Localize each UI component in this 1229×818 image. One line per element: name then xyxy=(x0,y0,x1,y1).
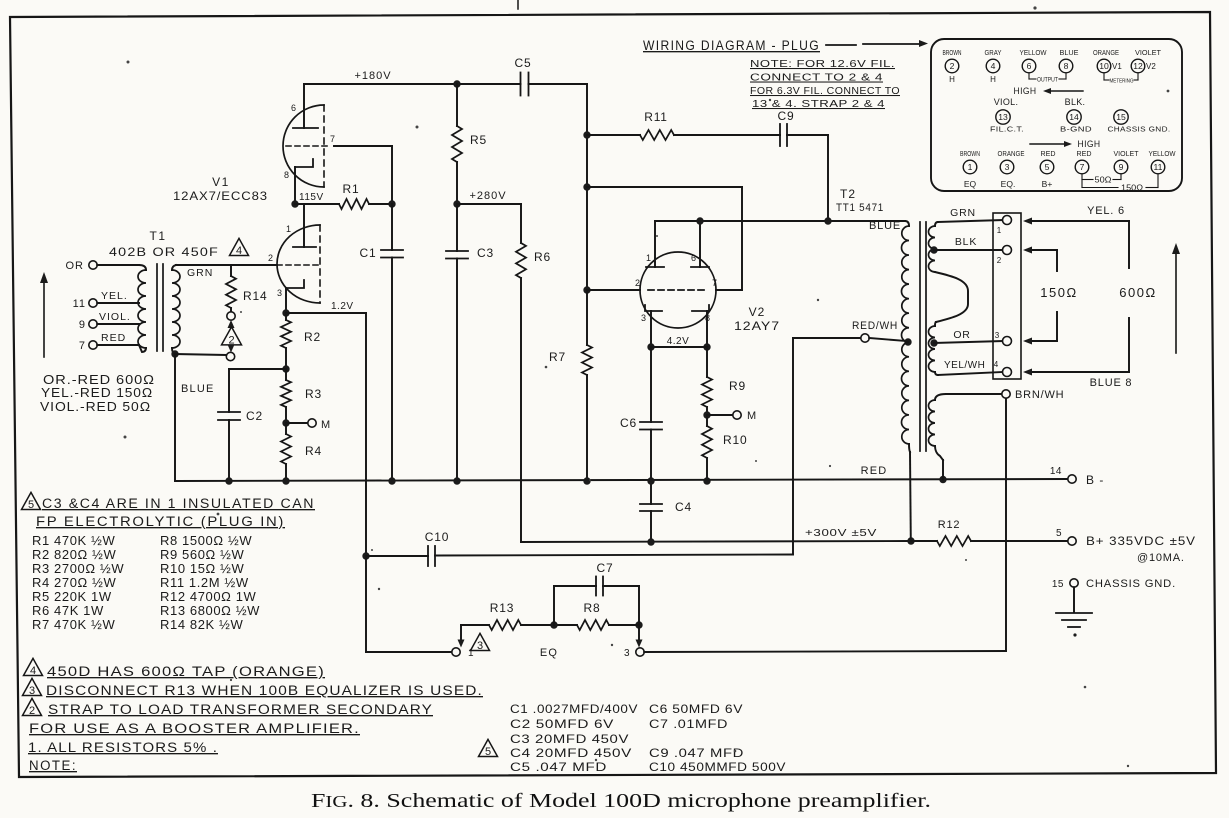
svg-text:VIOLET: VIOLET xyxy=(1135,50,1162,57)
resistor R10 xyxy=(706,415,708,426)
node M tap xyxy=(282,419,289,426)
wire YEL/WH xyxy=(938,372,1003,375)
svg-text:OR.-RED 600Ω: OR.-RED 600Ω xyxy=(43,373,155,387)
svg-text:ORANGE: ORANGE xyxy=(998,151,1025,158)
svg-text:2: 2 xyxy=(29,705,35,717)
svg-text:C5: C5 xyxy=(515,56,532,70)
svg-text:C3 &C4 ARE IN 1 INSULATED CAN: C3 &C4 ARE IN 1 INSULATED CAN xyxy=(42,496,315,511)
svg-text:R13 6800Ω ½W: R13 6800Ω ½W xyxy=(160,603,260,618)
node +280V xyxy=(453,200,460,207)
svg-text:NOTE: FOR 12.6V FIL.: NOTE: FOR 12.6V FIL. xyxy=(750,58,895,70)
capacitor C1 xyxy=(391,204,393,250)
svg-text:BROWN: BROWN xyxy=(960,151,980,158)
resistor R7 xyxy=(586,290,588,345)
wire YEL 6 arrow xyxy=(1023,218,1032,225)
svg-text:1.2V: 1.2V xyxy=(331,301,354,312)
svg-text:R6: R6 xyxy=(534,250,551,264)
wire R13 to R8 xyxy=(521,624,577,626)
svg-text:C7: C7 xyxy=(597,561,614,575)
transformer T1 secondary winding xyxy=(172,265,176,270)
node C10 left xyxy=(362,552,369,559)
svg-text:4: 4 xyxy=(236,245,242,257)
svg-text:FIG. 8. Schematic of Model: FIG. 8. Schematic of Model 100D micropho… xyxy=(311,790,931,812)
svg-text:+180V: +180V xyxy=(354,70,391,82)
svg-text:C1 .0027MFD/400V: C1 .0027MFD/400V xyxy=(510,702,638,716)
wire RED/WH to T2 tap xyxy=(869,338,906,341)
note marker 3 (EQ) xyxy=(471,633,490,650)
svg-text:C5 .047 MFD: C5 .047 MFD xyxy=(510,760,607,774)
wire to V2 grid pin2 xyxy=(587,289,640,291)
ground symbol xyxy=(1073,587,1075,612)
svg-text:115V: 115V xyxy=(299,192,324,203)
svg-text:R2: R2 xyxy=(304,330,321,344)
svg-text:R3: R3 xyxy=(305,387,322,401)
terminal EQ 3 xyxy=(636,648,644,656)
svg-text:H: H xyxy=(949,75,955,84)
svg-text:GRAY: GRAY xyxy=(985,50,1002,57)
svg-text:12: 12 xyxy=(1133,61,1143,71)
capacitor C10 xyxy=(366,555,428,557)
svg-text:1. ALL RESISTORS 5% .: 1. ALL RESISTORS 5% . xyxy=(28,740,218,755)
wire 115V node xyxy=(295,203,339,205)
svg-text:3: 3 xyxy=(477,640,483,652)
wire +280V to R6 xyxy=(457,203,521,205)
svg-text:RED: RED xyxy=(1077,151,1092,158)
tube V1b cathode pin 3 xyxy=(286,280,304,288)
transformer T2 core xyxy=(919,222,921,451)
wire +180V rail xyxy=(304,83,521,85)
svg-text:6: 6 xyxy=(691,253,696,263)
svg-text:15: 15 xyxy=(1116,112,1126,122)
svg-text:CHASSIS GND.: CHASSIS GND. xyxy=(1108,125,1171,134)
svg-text:10: 10 xyxy=(1099,61,1109,71)
svg-text:R5: R5 xyxy=(470,133,487,147)
svg-text:T1: T1 xyxy=(149,229,166,243)
terminal RED/WH xyxy=(861,334,869,342)
tube V1b plate pin 1 xyxy=(293,246,316,248)
plug METERING bracket xyxy=(1103,73,1105,80)
capacitor C2 xyxy=(229,368,286,370)
svg-text:6: 6 xyxy=(1027,61,1032,71)
svg-text:R8 1500Ω ½W: R8 1500Ω ½W xyxy=(160,533,252,548)
output up arrow xyxy=(1175,253,1177,353)
note marker 2 text xyxy=(23,698,42,715)
svg-text:3: 3 xyxy=(995,331,1000,340)
svg-text:8: 8 xyxy=(1064,61,1069,71)
svg-text:YELLOW: YELLOW xyxy=(1149,151,1176,158)
node R9/R10 xyxy=(703,411,710,418)
terminal EQ 1 xyxy=(452,648,460,656)
svg-text:YEL. 6: YEL. 6 xyxy=(1087,205,1125,217)
svg-text:R9 560Ω ½W: R9 560Ω ½W xyxy=(160,547,244,562)
svg-text:600Ω: 600Ω xyxy=(1119,285,1156,300)
svg-text:5: 5 xyxy=(28,499,34,511)
svg-text:RED: RED xyxy=(1041,151,1056,158)
wire RED/WH xyxy=(793,337,861,339)
svg-text:CHASSIS GND.: CHASSIS GND. xyxy=(1086,578,1176,590)
svg-text:8: 8 xyxy=(705,313,710,323)
svg-text:V2: V2 xyxy=(749,305,766,319)
svg-text:R11: R11 xyxy=(644,110,668,124)
svg-text:R11 1.2M ½W: R11 1.2M ½W xyxy=(160,575,249,590)
wire C9 to T2 blue xyxy=(827,135,829,221)
resistor R14 xyxy=(230,265,232,276)
svg-text:C4 20MFD 450V: C4 20MFD 450V xyxy=(510,746,632,760)
strip terminal 2 xyxy=(1003,246,1012,255)
node 1.2V xyxy=(282,309,289,316)
svg-text:R8: R8 xyxy=(584,601,601,615)
svg-text:EQ: EQ xyxy=(540,647,558,659)
svg-text:BLUE 8: BLUE 8 xyxy=(1090,377,1133,389)
svg-text:450D HAS 600Ω TAP (ORANGE): 450D HAS 600Ω TAP (ORANGE) xyxy=(47,664,325,679)
terminal 7 RED xyxy=(89,341,97,349)
svg-text:CONNECT TO 2 & 4: CONNECT TO 2 & 4 xyxy=(750,72,883,84)
resistor R4 xyxy=(285,423,287,434)
transformer T1 primary winding xyxy=(139,265,146,270)
svg-text:12AX7/ECC83: 12AX7/ECC83 xyxy=(173,189,268,203)
resistor R11 xyxy=(587,134,640,136)
svg-text:BLK.: BLK. xyxy=(1065,97,1086,107)
svg-text:2: 2 xyxy=(997,256,1002,265)
svg-text:FP ELECTROLYTIC (PLUG IN): FP ELECTROLYTIC (PLUG IN) xyxy=(36,514,285,529)
svg-text:C7 .01MFD: C7 .01MFD xyxy=(649,717,728,731)
tube V2 plate pin 1 xyxy=(646,266,664,268)
svg-text:C3: C3 xyxy=(477,246,494,260)
strap terminal lower xyxy=(226,352,234,360)
tube V2 cathode pin 3 xyxy=(645,305,662,311)
resistor R2 xyxy=(285,313,287,320)
svg-text:6: 6 xyxy=(291,103,296,113)
tube V1a grid pin 7 xyxy=(286,145,327,147)
T2 terminal strip xyxy=(993,213,1021,379)
tube V2 cathode pin 8 xyxy=(692,305,709,311)
svg-text:R1 470K ½W: R1 470K ½W xyxy=(32,533,115,548)
svg-text:ORANGE: ORANGE xyxy=(1093,50,1119,57)
terminal OR xyxy=(89,261,97,269)
wire R13 left with arrow xyxy=(460,625,462,641)
svg-text:TT1 5471: TT1 5471 xyxy=(836,202,884,214)
terminal M (V1) xyxy=(308,419,316,427)
svg-text:HIGH: HIGH xyxy=(1014,86,1037,96)
node R2/R3 xyxy=(282,365,289,372)
svg-text:C3 20MFD 450V: C3 20MFD 450V xyxy=(510,732,629,746)
svg-text:11: 11 xyxy=(73,298,86,310)
capacitor C5 xyxy=(520,73,522,96)
strip terminal 3 xyxy=(1003,337,1012,346)
node grid feed xyxy=(583,183,590,190)
svg-text:M: M xyxy=(747,410,757,422)
svg-text:METERING: METERING xyxy=(1110,79,1134,85)
capacitor C6 xyxy=(650,347,652,422)
plug 50 ohm bracket xyxy=(1081,174,1083,180)
title arrow xyxy=(826,44,856,46)
svg-text:4.2V: 4.2V xyxy=(667,336,690,347)
svg-text:8: 8 xyxy=(284,170,289,180)
wire EQ3 arrow xyxy=(638,625,640,641)
plug OUTPUT bracket xyxy=(1028,73,1030,79)
wire cathode line to EQ1 xyxy=(365,556,367,652)
transformer T1 core xyxy=(156,264,158,351)
node 4.2V xyxy=(647,343,654,350)
svg-text:OUTPUT: OUTPUT xyxy=(1037,78,1058,84)
svg-text:YEL.-RED 150Ω: YEL.-RED 150Ω xyxy=(41,386,153,400)
svg-text:50Ω: 50Ω xyxy=(1095,176,1112,185)
svg-text:BLK: BLK xyxy=(955,236,977,248)
svg-text:13 & 4. STRAP 2 & 4: 13 & 4. STRAP 2 & 4 xyxy=(752,98,885,110)
svg-text:7: 7 xyxy=(712,278,717,288)
paper speckles xyxy=(416,126,419,129)
wire T1 secondary bottom xyxy=(171,350,178,357)
svg-text:HIGH: HIGH xyxy=(1078,139,1101,149)
wire B+ feed vertical xyxy=(586,84,588,290)
svg-text:H: H xyxy=(990,75,996,84)
svg-text:R14: R14 xyxy=(243,289,267,303)
resistor R1 xyxy=(339,199,369,209)
wire V2 plates to T2 BLUE xyxy=(655,220,905,222)
svg-text:@10MA.: @10MA. xyxy=(1137,552,1185,564)
svg-text:13: 13 xyxy=(998,112,1008,122)
svg-text:YEL.: YEL. xyxy=(101,290,128,302)
svg-text:1: 1 xyxy=(997,226,1002,235)
svg-text:12AY7: 12AY7 xyxy=(734,319,780,333)
svg-text:C1: C1 xyxy=(360,246,377,260)
svg-text:DISCONNECT R13 WHEN 100B EQUAL: DISCONNECT R13 WHEN 100B EQUALIZER IS US… xyxy=(46,683,483,698)
capacitor C3 xyxy=(456,204,458,251)
svg-text:VIOL.: VIOL. xyxy=(994,97,1019,107)
terminal 5 B+ xyxy=(1068,537,1076,545)
svg-text:7: 7 xyxy=(1080,162,1085,172)
svg-text:R4 270Ω ½W: R4 270Ω ½W xyxy=(32,575,116,590)
capacitor C9 xyxy=(674,134,780,136)
tube V1a envelope (upper half) xyxy=(283,105,324,187)
svg-text:C4: C4 xyxy=(675,500,692,514)
transformer T2 secondary upper xyxy=(935,222,938,226)
node R8 right xyxy=(635,621,642,628)
wire R6 to +300V line xyxy=(520,278,522,542)
plug HIGH right arrow xyxy=(1030,143,1064,145)
svg-text:C2 50MFD 6V: C2 50MFD 6V xyxy=(510,717,614,731)
resistor R5 xyxy=(456,84,458,126)
svg-text:C9: C9 xyxy=(778,109,795,123)
node R11 tap xyxy=(583,131,590,138)
strip terminal 1 xyxy=(1003,216,1012,225)
svg-text:OR: OR xyxy=(953,329,970,341)
transformer T2 secondary lower xyxy=(935,322,936,326)
wire 150 ohm lower arrow xyxy=(1056,312,1058,341)
tube V2 envelope xyxy=(640,252,716,328)
wire to V2 grid pin7 xyxy=(587,186,742,188)
svg-text:R3 2700Ω ½W: R3 2700Ω ½W xyxy=(32,561,124,576)
terminal BRN/WH xyxy=(946,393,1002,395)
svg-text:VIOLET: VIOLET xyxy=(1114,151,1140,158)
resistor R6 xyxy=(516,243,526,278)
svg-text:15: 15 xyxy=(1052,579,1064,590)
svg-text:1: 1 xyxy=(646,253,651,263)
svg-text:9: 9 xyxy=(1119,162,1124,172)
svg-text:R6 47K 1W: R6 47K 1W xyxy=(32,603,104,618)
resistor R3 xyxy=(281,380,291,407)
svg-text:M: M xyxy=(321,419,331,431)
svg-text:V1: V1 xyxy=(212,175,230,189)
svg-text:B+ 335VDC ±5V: B+ 335VDC ±5V xyxy=(1086,536,1196,548)
svg-text:EQ.: EQ. xyxy=(1001,179,1016,189)
svg-text:RED: RED xyxy=(861,465,888,477)
svg-text:14: 14 xyxy=(1069,112,1079,122)
wire OR tap xyxy=(930,339,937,346)
svg-text:3: 3 xyxy=(641,313,646,323)
resistor R13 xyxy=(461,624,489,626)
svg-text:+300V ±5V: +300V ±5V xyxy=(805,528,877,539)
tube V1b envelope (lower half) xyxy=(277,225,320,303)
resistor R12 xyxy=(911,540,937,542)
svg-text:9: 9 xyxy=(79,319,86,331)
svg-text:4: 4 xyxy=(994,360,999,369)
svg-text:B+: B+ xyxy=(1042,179,1053,189)
node V2 grid pin2 feed xyxy=(583,286,590,293)
svg-text:R10 15Ω ½W: R10 15Ω ½W xyxy=(160,561,244,576)
tube V1a plate pin 6 xyxy=(293,127,318,129)
svg-text:R13: R13 xyxy=(490,601,514,615)
node C4 bottom xyxy=(647,538,654,545)
svg-text:VIOL.: VIOL. xyxy=(99,311,131,323)
svg-text:BROWN: BROWN xyxy=(943,50,962,57)
svg-text:EQ: EQ xyxy=(964,179,977,189)
svg-text:2: 2 xyxy=(268,253,273,263)
svg-text:YEL/WH: YEL/WH xyxy=(944,360,985,371)
wire V1a grid to R1 node xyxy=(334,145,392,147)
wire 1.2V to feedback line xyxy=(286,312,366,314)
tube V2 grid dashes xyxy=(648,289,708,291)
svg-text:14: 14 xyxy=(1050,466,1062,477)
svg-text:4: 4 xyxy=(991,61,996,71)
svg-text:BLUE: BLUE xyxy=(181,383,215,395)
svg-text:T2: T2 xyxy=(840,187,856,201)
svg-text:R14 82K ½W: R14 82K ½W xyxy=(160,617,243,632)
input up arrow xyxy=(43,281,45,357)
svg-text:C6: C6 xyxy=(620,416,637,430)
svg-text:VIOL.-RED 50Ω: VIOL.-RED 50Ω xyxy=(40,400,151,414)
svg-text:R2 820Ω ½W: R2 820Ω ½W xyxy=(32,547,116,562)
svg-text:3: 3 xyxy=(1005,162,1010,172)
tube V1b grid pin 2 xyxy=(277,264,320,266)
svg-text:YELLOW: YELLOW xyxy=(1020,50,1047,57)
top tick mark xyxy=(517,0,519,9)
plug box xyxy=(931,39,1182,191)
svg-text:R12: R12 xyxy=(938,519,961,531)
svg-text:150Ω: 150Ω xyxy=(1040,285,1077,300)
svg-text:1: 1 xyxy=(286,224,291,234)
wire EQ3 to BRN/WH xyxy=(644,651,1006,652)
svg-text:+280V: +280V xyxy=(469,190,506,202)
svg-text:1: 1 xyxy=(968,162,973,172)
note marker 4 text xyxy=(24,658,43,675)
svg-text:BRN/WH: BRN/WH xyxy=(1015,389,1064,401)
svg-text:FOR USE AS A BOOSTER AMPLIFIER: FOR USE AS A BOOSTER AMPLIFIER. xyxy=(29,721,360,736)
node 115V xyxy=(291,200,298,207)
svg-text:RED: RED xyxy=(101,332,126,344)
svg-text:R4: R4 xyxy=(305,444,322,458)
tube V2 plate pin 6 xyxy=(691,266,709,268)
resistor R8 xyxy=(577,620,609,630)
svg-text:C2: C2 xyxy=(246,409,263,423)
wire BLUE (T1 bottom to ground rail) xyxy=(174,354,176,481)
capacitor C7 branch xyxy=(553,586,555,625)
svg-text:RED/WH: RED/WH xyxy=(852,320,898,332)
svg-text:B -: B - xyxy=(1086,473,1104,487)
strip terminal 4 xyxy=(1003,368,1012,377)
terminal 14 B- xyxy=(1068,475,1076,483)
note marker 2 strap (triangle with arrows) xyxy=(228,320,235,328)
node B+ feed xyxy=(907,537,914,544)
svg-text:FIL.C.T.: FIL.C.T. xyxy=(990,125,1024,134)
svg-text:C10 450MMFD 500V: C10 450MMFD 500V xyxy=(649,760,786,774)
note marker 5 (cap list) xyxy=(479,739,498,756)
svg-text:WIRING DIAGRAM - PLUG: WIRING DIAGRAM - PLUG xyxy=(643,38,820,53)
svg-text:2: 2 xyxy=(635,278,640,288)
svg-text:5: 5 xyxy=(1045,162,1050,172)
wire R12 to B+ xyxy=(971,540,1068,542)
svg-text:STRAP TO LOAD TRANSFORMER SECO: STRAP TO LOAD TRANSFORMER SECONDARY xyxy=(48,702,433,717)
svg-text:BLUE: BLUE xyxy=(869,220,901,232)
svg-text:C9 .047 MFD: C9 .047 MFD xyxy=(649,746,744,760)
ground rail junctions xyxy=(225,477,232,484)
terminal M (V2) xyxy=(733,411,741,419)
svg-text:R12 4700Ω 1W: R12 4700Ω 1W xyxy=(160,589,257,604)
svg-text:R1: R1 xyxy=(343,182,360,196)
svg-text:NOTE:: NOTE: xyxy=(29,758,77,773)
transformer T2 primary winding xyxy=(905,221,909,226)
svg-text:GRN: GRN xyxy=(187,267,213,279)
svg-text:C10: C10 xyxy=(425,530,449,544)
T2 secondary link xyxy=(935,272,968,322)
transformer T2 tertiary winding xyxy=(935,394,946,400)
svg-text:7: 7 xyxy=(330,134,335,144)
svg-text:B-GND: B-GND xyxy=(1060,125,1092,134)
svg-text:7: 7 xyxy=(79,340,86,352)
wire 150 ohm upper arrow xyxy=(1023,247,1032,254)
svg-text:4: 4 xyxy=(30,665,36,677)
terminal 9 VIOL xyxy=(89,320,97,328)
svg-text:R7: R7 xyxy=(549,350,566,364)
svg-text:5: 5 xyxy=(1056,528,1062,539)
svg-text:3: 3 xyxy=(277,288,282,298)
wire feedback riser xyxy=(792,338,794,555)
svg-text:402B OR 450F: 402B OR 450F xyxy=(109,245,219,259)
svg-text:R10: R10 xyxy=(723,433,747,447)
capacitor C4 xyxy=(650,481,652,504)
svg-text:V2: V2 xyxy=(1146,62,1156,71)
plug 150 ohm bracket xyxy=(1081,180,1083,188)
svg-text:R9: R9 xyxy=(729,379,746,393)
svg-text:FOR 6.3V FIL. CONNECT TO: FOR 6.3V FIL. CONNECT TO xyxy=(750,85,900,97)
node R1 right xyxy=(388,200,395,207)
svg-text:5: 5 xyxy=(485,746,491,758)
svg-text:BLUE: BLUE xyxy=(1060,50,1079,57)
strap terminal upper xyxy=(227,312,235,320)
svg-text:11: 11 xyxy=(1154,162,1163,172)
svg-text:R7 470K ½W: R7 470K ½W xyxy=(32,617,115,632)
terminal 11 YEL xyxy=(89,299,97,307)
note marker 3 text xyxy=(23,678,42,695)
node R5 top xyxy=(453,80,460,87)
wire BLUE 8 arrow xyxy=(1128,318,1130,372)
svg-text:OR: OR xyxy=(66,260,85,272)
wire ground RED rail xyxy=(175,479,1068,481)
wire BLK tap xyxy=(930,246,937,253)
plug pin 15 chassis xyxy=(1114,110,1128,124)
svg-text:R5 220K 1W: R5 220K 1W xyxy=(32,589,112,604)
wire GRN (T2) xyxy=(938,220,1003,222)
